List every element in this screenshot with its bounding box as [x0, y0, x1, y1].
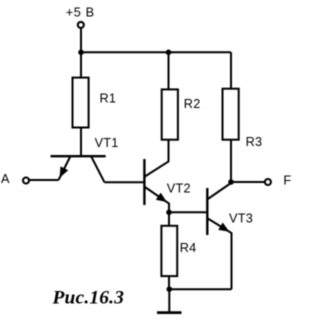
wire top rail down to R3: [230, 52, 232, 88]
transistor VT3 emitter line: [208, 219, 232, 290]
svg-text:VT3: VT3: [229, 211, 253, 225]
resistor R1: [73, 78, 89, 128]
wire R4 bottom to ground node: [168, 276, 170, 289]
junction dot output F node: [228, 179, 234, 185]
transistor VT1 base bar: [51, 155, 106, 157]
svg-text:F: F: [283, 173, 291, 187]
svg-text:R1: R1: [100, 91, 117, 105]
transistor VT2 base bar: [143, 159, 145, 205]
svg-text:R4: R4: [180, 241, 197, 255]
transistor VT3 base bar: [206, 188, 208, 235]
junction dot top rail at R1 column: [78, 50, 84, 56]
junction dot VT2 emitter node: [166, 210, 172, 216]
power terminal +5V circle: [78, 22, 84, 28]
arrowhead VT1 emitter: [60, 166, 69, 177]
svg-text:VT1: VT1: [95, 136, 119, 150]
svg-text:R3: R3: [246, 135, 263, 149]
output terminal F circle: [265, 179, 271, 185]
svg-text:Рис.16.3: Рис.16.3: [52, 287, 125, 308]
transistor VT3 collector line: [208, 183, 231, 199]
resistor R4: [161, 226, 177, 276]
wire input A to VT1 emitter: [29, 179, 58, 181]
wire rail to R1 top: [80, 52, 82, 77]
transistor VT2 collector line: [145, 140, 169, 177]
transistor VT2 emitter line: [145, 187, 169, 212]
transistor VT1 collector line: [92, 157, 105, 182]
arrowhead VT3 emitter: [218, 223, 229, 232]
svg-text:R2: R2: [184, 97, 201, 111]
junction dot ground node: [167, 286, 173, 292]
wire VT3 collector up to R3 bottom: [230, 140, 232, 184]
resistor R3: [223, 89, 239, 140]
resistor R2: [162, 89, 178, 139]
transistor VT1 emitter line: [59, 157, 71, 180]
ground stem: [168, 289, 170, 311]
wire output node to F terminal: [231, 181, 264, 183]
wire rail to R2 top: [168, 52, 170, 89]
wire top rail horizontal: [81, 51, 231, 53]
ground bar: [157, 311, 182, 314]
input terminal A circle: [23, 178, 29, 184]
arrowhead VT2 emitter: [156, 193, 167, 203]
wire ground node to VT3 emitter column: [169, 288, 232, 290]
wire supply circle to top rail: [80, 28, 82, 52]
svg-text:A: A: [1, 172, 10, 186]
wire VT1 collector to VT2 base: [105, 181, 145, 183]
svg-text:VT2: VT2: [167, 181, 191, 195]
wire R1 bottom to VT1 base bar: [80, 128, 82, 157]
wire VT2 emitter node to R4 top: [168, 212, 170, 226]
wire VT2 emitter node to VT3 base: [169, 211, 206, 213]
svg-text:+5 В: +5 В: [66, 5, 95, 19]
junction dot top rail at R2 column: [166, 50, 172, 56]
